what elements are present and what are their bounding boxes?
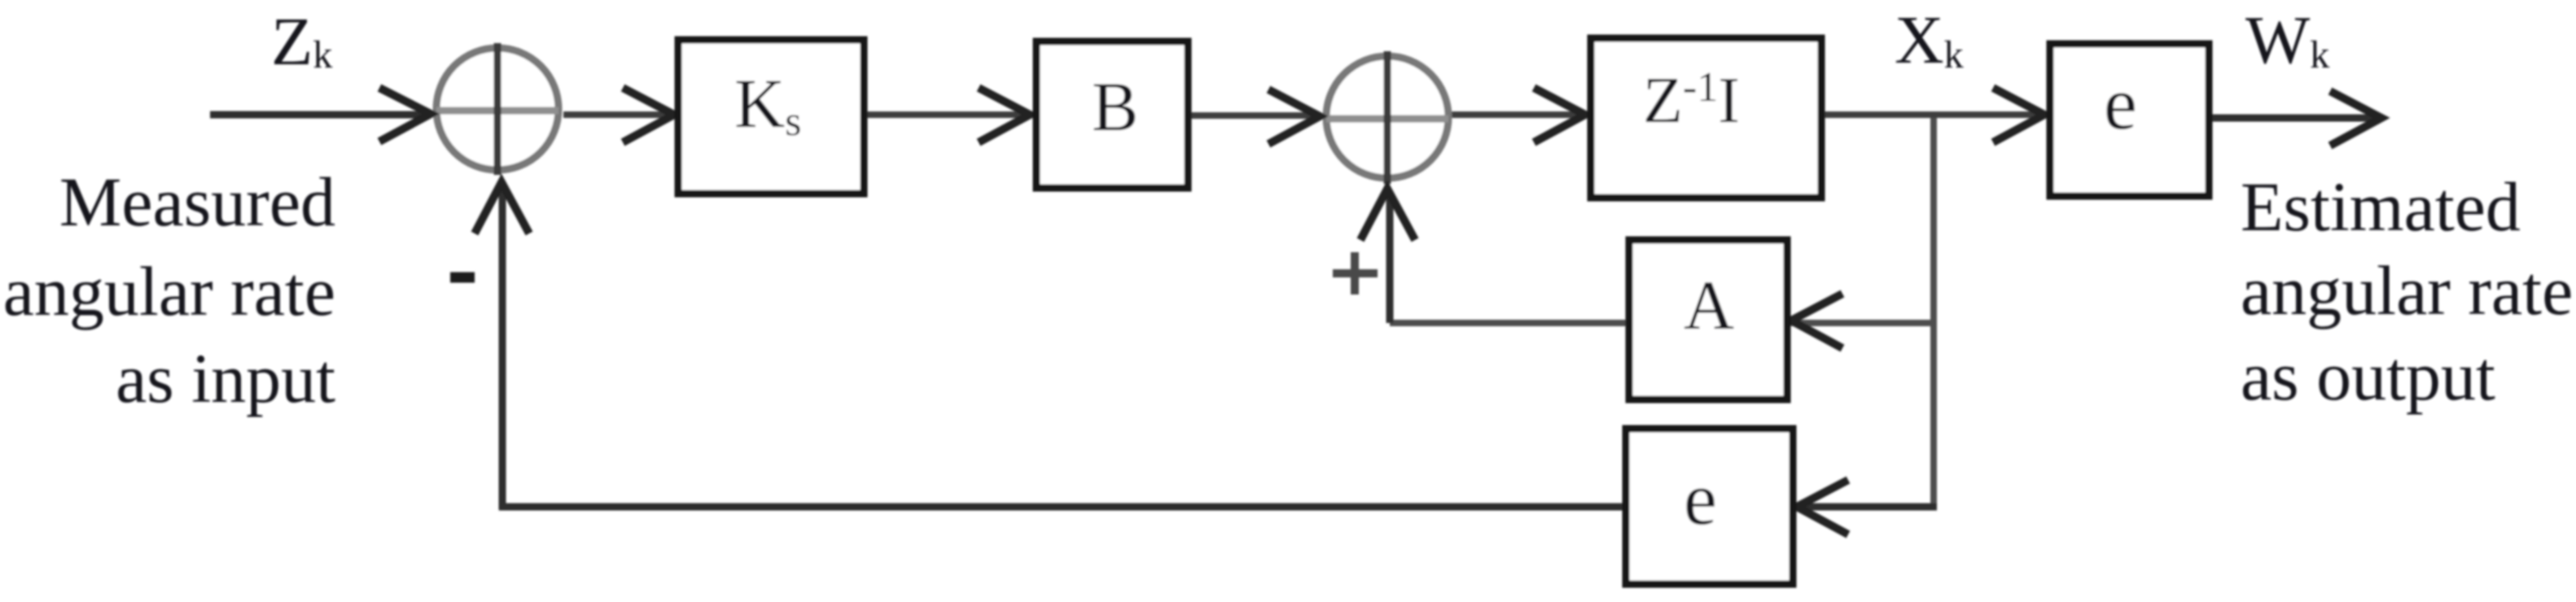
svg-text:e: e: [1684, 457, 1717, 540]
svg-text:as input: as input: [116, 339, 335, 417]
svg-text:B: B: [1092, 68, 1138, 146]
svg-text:angular rate: angular rate: [3, 252, 335, 330]
svg-text:e: e: [2104, 62, 2137, 145]
svg-text:as output: as output: [2241, 337, 2495, 415]
svg-text:A: A: [1684, 266, 1734, 344]
svg-text:angular rate: angular rate: [2241, 251, 2573, 329]
svg-text:Measured: Measured: [59, 163, 335, 241]
svg-text:Estimated: Estimated: [2241, 168, 2521, 246]
